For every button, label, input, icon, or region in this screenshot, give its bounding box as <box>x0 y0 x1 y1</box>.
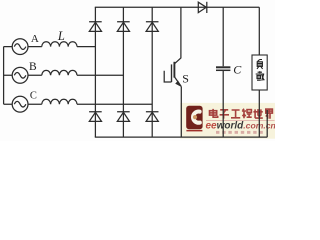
svg-text:C: C <box>233 63 242 77</box>
svg-text:S: S <box>182 72 189 86</box>
svg-text:eeworld.com.cn: eeworld.com.cn <box>206 121 276 132</box>
svg-text:B: B <box>29 61 37 73</box>
svg-text:L: L <box>57 29 65 43</box>
svg-text:A: A <box>31 33 39 45</box>
svg-text:C: C <box>30 91 37 102</box>
